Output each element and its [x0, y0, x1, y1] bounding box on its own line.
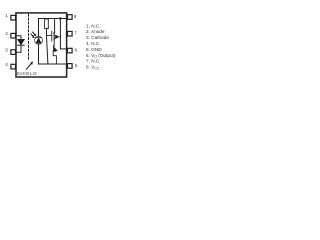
- SHIELD label: [17, 71, 38, 76]
- svg-text:6: 6: [75, 48, 78, 53]
- LED D1: [18, 40, 24, 46]
- svg-text:3: 3: [5, 47, 8, 52]
- transistor Q2: [54, 46, 58, 52]
- svg-text:1. N.C.: 1. N.C.: [86, 23, 101, 28]
- svg-text:SHIELD: SHIELD: [17, 71, 38, 76]
- emitter jog wire to ground: [53, 51, 56, 64]
- pin 7: [68, 31, 78, 36]
- pin 4: [5, 62, 15, 69]
- SHIELD arrow: [26, 61, 33, 69]
- wire photodiode top to Vcc rail: [38, 19, 40, 37]
- svg-text:5: 5: [75, 63, 78, 68]
- svg-text:8. VCC: 8. VCC: [86, 65, 100, 71]
- wire photodiode bottom to ground rail: [38, 44, 40, 64]
- svg-text:4. N.C.: 4. N.C.: [86, 41, 101, 46]
- pin function list: [86, 23, 116, 70]
- pin 6: [68, 48, 78, 53]
- pin 3: [5, 47, 15, 54]
- svg-text:3. Cathode: 3. Cathode: [86, 35, 109, 40]
- pin 1: [5, 13, 15, 20]
- svg-text:8: 8: [74, 14, 77, 19]
- ground rail wire to pin 5: [39, 63, 67, 65]
- wire resistor bottom to ground rail: [47, 29, 48, 64]
- junction dot on rail: [59, 17, 61, 19]
- svg-text:2. Anode: 2. Anode: [86, 29, 105, 34]
- package outline: [16, 13, 67, 77]
- wire LED cathode to pin3: [16, 45, 21, 52]
- svg-text:7. N.C.: 7. N.C.: [86, 59, 101, 64]
- svg-text:5. GND: 5. GND: [86, 47, 102, 52]
- pin 5: [68, 63, 78, 68]
- wire pin2 to LED anode: [16, 36, 21, 40]
- output wire to pin 6: [60, 48, 66, 50]
- transistor Q1: [52, 31, 61, 41]
- shield dashed line: [28, 14, 30, 61]
- wire Q1 to Q2: [53, 40, 55, 47]
- svg-text:2: 2: [5, 31, 8, 36]
- pull line from rail: [59, 19, 61, 49]
- resistor R1: [45, 19, 49, 29]
- wire Q1 collector to Vcc rail: [54, 19, 56, 33]
- base tap wire: [46, 34, 51, 36]
- svg-text:1: 1: [5, 13, 8, 18]
- photodiode PD: [35, 36, 43, 44]
- pin 2: [5, 31, 15, 38]
- light arrows: [31, 32, 37, 38]
- pin 8: [68, 14, 77, 19]
- Vcc rail wire to pin 8: [39, 18, 67, 20]
- svg-text:7: 7: [74, 31, 77, 36]
- svg-text:4: 4: [5, 62, 8, 67]
